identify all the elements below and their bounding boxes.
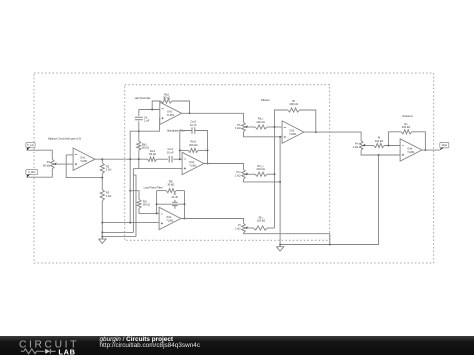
- wire OA3 - input line: [139, 109, 160, 111]
- svg-text:20 nF: 20 nF: [171, 195, 178, 199]
- svg-text:30 kΩ: 30 kΩ: [143, 203, 150, 207]
- resistor R3: [101, 178, 103, 190]
- outer dashed boundary box: [34, 73, 434, 263]
- capacitor Cl feedback: [156, 191, 158, 214]
- wire Rm1 to Cm1: [157, 158, 168, 160]
- wire OA1 - input stub: [66, 154, 73, 156]
- node V_Lin input flag: [26, 143, 35, 148]
- svg-text:100 kΩ: 100 kΩ: [257, 219, 265, 223]
- potentiometer Ph: [242, 122, 246, 132]
- svg-text:1 kΩ: 1 kΩ: [106, 194, 112, 198]
- wire feedback to OA1 - input: [66, 155, 102, 178]
- resistor Ri: [367, 145, 374, 147]
- potentiometer Pv: [359, 141, 363, 151]
- potentiometer Pm: [242, 169, 246, 179]
- svg-text:30 kΩ: 30 kΩ: [142, 146, 149, 150]
- wire Cm1 to OA4 - input: [173, 158, 182, 160]
- potentiometer Pl: [242, 223, 246, 233]
- op-amp OA2 low pass: [159, 207, 181, 229]
- svg-text:10 nF: 10 nF: [167, 150, 174, 154]
- resistor R2: [101, 159, 103, 163]
- wire Pv bottom to OA6 + input: [361, 150, 400, 155]
- svg-text:1 µF: 1 µF: [144, 119, 150, 123]
- wire signal trunk to HP + input: [130, 118, 160, 222]
- ground mixer: [276, 245, 284, 252]
- wire ground link 2: [102, 236, 136, 238]
- svg-text:1 kΩ: 1 kΩ: [106, 168, 112, 172]
- resistor Rb1: [137, 141, 141, 150]
- svg-text:TL081: TL081: [80, 160, 88, 163]
- resistor Rl2 feedback: [157, 190, 167, 192]
- wire ground link 1: [102, 231, 133, 233]
- svg-text:200 kΩ: 200 kΩ: [189, 143, 197, 147]
- op-amp OA5 mixer: [282, 121, 304, 143]
- wire vertical ground drop B: [133, 175, 136, 237]
- wire Pl bottom ground: [244, 233, 330, 245]
- wire Ph bottom to OA5 + input: [244, 132, 283, 137]
- svg-text:TL081: TL081: [289, 133, 297, 136]
- svg-text:TL081: TL081: [189, 164, 197, 167]
- resistor Rm2 feedback: [180, 149, 188, 151]
- capacitor Cm2 feedback: [180, 131, 192, 160]
- svg-text:TL081: TL081: [166, 219, 174, 222]
- wire V_Lin input to P1 top: [27, 150, 53, 159]
- svg-text:Vout: Vout: [442, 143, 447, 147]
- wire OA5 + ground drop: [279, 137, 281, 245]
- resistor Rv feedback: [389, 132, 402, 146]
- resistor Rl1: [137, 199, 141, 208]
- wire ground run to volume: [280, 155, 378, 245]
- svg-text:30 kΩ: 30 kΩ: [167, 183, 174, 187]
- svg-text:Mixer: Mixer: [261, 98, 270, 102]
- svg-text:Volume: Volume: [402, 114, 413, 118]
- svg-text:TL081: TL081: [167, 114, 175, 117]
- op-amp OA4 bandpass: [182, 152, 204, 174]
- resistor Rl_i: [250, 227, 254, 229]
- wire LP + input / ground run: [102, 222, 159, 224]
- op-amp OA6 volume: [400, 139, 422, 161]
- svg-text:30 kΩ: 30 kΩ: [163, 96, 170, 100]
- svg-text:100 kΩ: 100 kΩ: [256, 120, 264, 124]
- svg-text:200 kΩ: 200 kΩ: [289, 102, 297, 106]
- svg-text:50 kΩ: 50 kΩ: [43, 163, 50, 167]
- wire P1 wiper to OA1 + input: [59, 163, 74, 165]
- wire Rb1 to BP + input: [138, 150, 140, 168]
- svg-text:200 kΩ: 200 kΩ: [402, 125, 410, 129]
- svg-text:100 kΩ: 100 kΩ: [256, 167, 264, 171]
- capacitor Cm1: [169, 156, 172, 163]
- junction dots balance output node: [101, 158, 103, 160]
- resistor Rf feedback: [288, 108, 300, 112]
- wire Pm bottom ground: [244, 179, 281, 182]
- wire OA2 output to Pl: [181, 219, 244, 224]
- capacitor Cb: [138, 110, 140, 117]
- wire OA3 output to Ph: [181, 113, 244, 122]
- svg-text:High Pass Filter: High Pass Filter: [135, 96, 151, 100]
- node V_Rin input flag: [26, 170, 38, 175]
- wire OA4 output to Pm: [204, 164, 244, 170]
- node Vout output flag: [440, 142, 449, 148]
- op-amp OA3 high pass: [160, 102, 182, 124]
- svg-text:82 kΩ: 82 kΩ: [149, 152, 156, 156]
- svg-text:100 kΩ: 100 kΩ: [375, 139, 383, 143]
- svg-text:Low Pass Filter: Low Pass Filter: [144, 185, 163, 189]
- wire summing bus: [275, 110, 288, 228]
- op-amp OA1: [73, 148, 95, 170]
- wire R3 to ground: [101, 201, 103, 237]
- ground: [99, 237, 107, 244]
- svg-text:V_Rin: V_Rin: [28, 170, 36, 174]
- wire V_Rin input to P1 bottom: [27, 169, 53, 177]
- potentiometer P1: [51, 159, 55, 169]
- svg-text:TL081: TL081: [407, 151, 415, 154]
- wire OA5 output to volume: [304, 132, 362, 141]
- resistor Rb2 feedback: [152, 101, 161, 110]
- svg-text:1 kΩ: 1 kΩ: [235, 173, 241, 177]
- wire OA1 output / signal line: [95, 158, 148, 160]
- resistor Rm1: [148, 157, 157, 161]
- wire trunk jog to Rl1: [130, 191, 139, 200]
- svg-text:V_Lin: V_Lin: [27, 143, 34, 147]
- wire OA6 output to Vout: [422, 149, 440, 151]
- resistor Rh_i: [250, 126, 255, 128]
- svg-text:1 kΩ: 1 kΩ: [353, 145, 359, 149]
- svg-text:1 kΩ: 1 kΩ: [235, 126, 241, 130]
- svg-text:1 kΩ: 1 kΩ: [235, 226, 241, 230]
- wire Rl1 to OA2 - input: [139, 208, 159, 213]
- wire vertical ground drop A: [132, 169, 134, 233]
- svg-text:Balance Circuit (with gain of: Balance Circuit (with gain of 2): [48, 137, 81, 141]
- svg-text:10 nF: 10 nF: [190, 123, 197, 127]
- inner dashed filter box: [125, 85, 330, 241]
- svg-text:LAB: LAB: [58, 347, 75, 356]
- resistor Rm_i: [250, 173, 255, 175]
